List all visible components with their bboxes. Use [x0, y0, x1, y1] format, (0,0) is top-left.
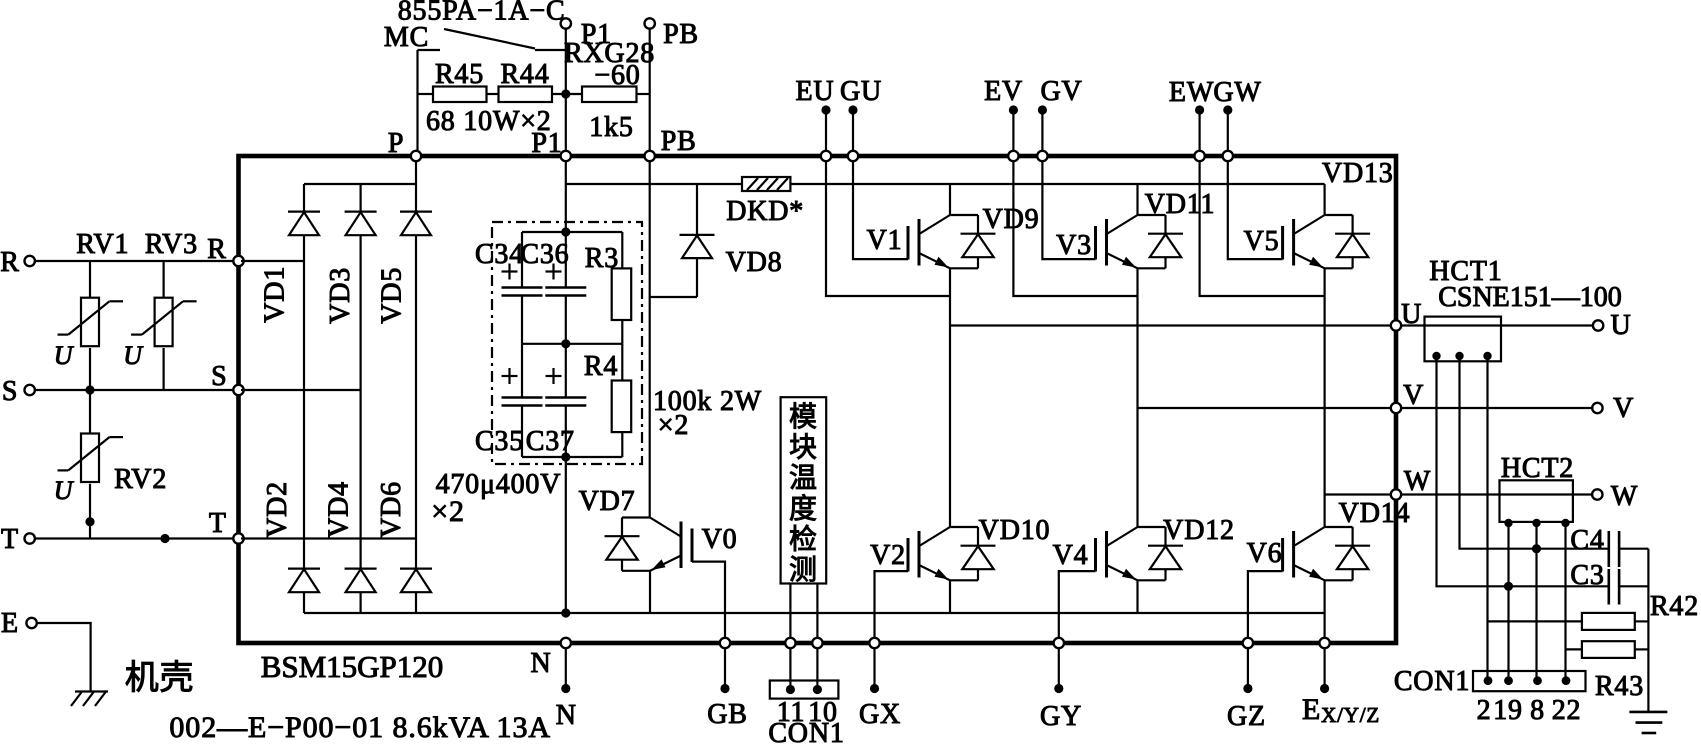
svg-text:R42: R42 [1650, 591, 1699, 622]
svg-text:R: R [0, 247, 19, 278]
wire N column [565, 457, 567, 613]
wire GX gate lead [875, 571, 909, 643]
svg-text:VD12: VD12 [1163, 515, 1235, 546]
svg-text:R4: R4 [584, 351, 618, 382]
resistor R43 [1566, 648, 1582, 650]
wire GY stub [1058, 648, 1060, 689]
terminal EW stub [1198, 110, 1200, 151]
svg-text:R44: R44 [500, 59, 549, 90]
svg-text:VD10: VD10 [979, 515, 1051, 546]
terminal W module [1391, 489, 1401, 499]
svg-text:V5: V5 [1244, 226, 1280, 257]
resistor R45 68 10W [433, 87, 487, 103]
node N rail / N column [561, 608, 570, 617]
svg-text:22: 22 [1552, 695, 1582, 726]
wire phase R input [35, 260, 236, 262]
wire V output [1401, 407, 1593, 409]
terminal EV bus [1008, 151, 1018, 161]
diode VD5 [415, 184, 417, 212]
terminal PB top [645, 18, 655, 28]
wire V5 collector column [1323, 184, 1325, 215]
svg-text:检: 检 [789, 523, 818, 555]
svg-text:VD5: VD5 [377, 267, 408, 324]
svg-text:机壳: 机壳 [125, 659, 195, 697]
wire V6 collector column [1323, 495, 1325, 528]
wire cap bottom rail [522, 456, 622, 458]
diode VD2 [303, 261, 305, 569]
diode VD8 [696, 184, 698, 235]
svg-text:19: 19 [1493, 695, 1523, 726]
svg-text:U: U [1610, 310, 1631, 341]
svg-text:R3: R3 [585, 243, 619, 274]
svg-text:模: 模 [789, 401, 818, 433]
wire N rail [304, 612, 1325, 614]
terminal GU bus [848, 151, 858, 161]
svg-text:C35: C35 [475, 426, 524, 457]
svg-text:GW: GW [1213, 77, 1261, 108]
svg-text:CON1: CON1 [768, 718, 844, 744]
svg-text:S: S [211, 361, 227, 392]
terminal U module [1391, 320, 1401, 330]
svg-text:2: 2 [1477, 695, 1492, 726]
wire resistor rail P-P1 [418, 93, 434, 95]
wire GW gate lead [1228, 158, 1283, 259]
node RV1/S [85, 385, 94, 394]
svg-text:EW: EW [1169, 77, 1214, 108]
wire GY gate lead [1059, 571, 1096, 643]
terminal P1 bus [561, 151, 571, 161]
wire EU emitter sense [826, 158, 950, 296]
svg-text:MC: MC [384, 22, 429, 53]
svg-text:V6: V6 [1247, 538, 1283, 569]
terminal R [25, 256, 35, 266]
ground chassis [75, 690, 108, 692]
svg-text:U: U [54, 341, 75, 370]
wire GZ gate lead [1248, 571, 1283, 643]
svg-text:C3: C3 [1570, 560, 1604, 591]
wire signal ground [1647, 549, 1649, 712]
terminal GZ module [1243, 638, 1253, 648]
svg-text:GZ: GZ [1227, 701, 1266, 732]
wire PB column [649, 158, 651, 518]
svg-text:P: P [388, 128, 404, 159]
resistor R44 68 10W [499, 87, 553, 103]
terminal EU stub [825, 110, 827, 151]
node cap bottom [561, 452, 570, 461]
node RV2 lead [85, 517, 94, 526]
svg-text:1k5: 1k5 [589, 112, 633, 143]
wire P1 internal rail [566, 183, 742, 185]
svg-text:RV1: RV1 [76, 229, 129, 260]
transistor V3 IGBT [1096, 215, 1184, 268]
diode VD3 [360, 184, 362, 212]
terminal GV stub [1041, 110, 1043, 151]
terminal P bus [411, 151, 421, 161]
transistor V4 IGBT [1096, 527, 1184, 580]
capacitor C37 [565, 344, 567, 398]
svg-text:RV3: RV3 [145, 229, 198, 260]
svg-text:HCT2: HCT2 [1501, 453, 1574, 484]
wire cap top rail [522, 231, 622, 233]
terminal CON1-11 module [785, 638, 795, 648]
svg-text:V1: V1 [867, 225, 903, 256]
svg-text:C36: C36 [520, 239, 569, 270]
svg-text:N: N [556, 700, 577, 731]
svg-text:VD1: VD1 [260, 266, 291, 323]
wire V3 collector column [1136, 184, 1138, 215]
node HCT2/C3 [1504, 582, 1513, 591]
svg-text:T: T [209, 508, 227, 539]
wire temp sensor pins [789, 584, 791, 644]
node on T wire [160, 534, 169, 543]
node HCT2/C4 [1532, 544, 1541, 553]
ground signal [1629, 711, 1667, 714]
wire W output [1401, 493, 1593, 495]
capacitor C34 [521, 232, 523, 288]
node cap top [561, 227, 570, 236]
IGBT V0 brake chopper [605, 518, 693, 571]
varistor RV2 [89, 390, 91, 434]
wire EW emitter sense [1200, 158, 1325, 296]
wire phase T input [35, 537, 236, 539]
node junction P1/R44 [561, 89, 570, 98]
switch MC contact [418, 49, 441, 51]
wire rectifier top rail [304, 183, 416, 185]
wire W phase line [1325, 493, 1391, 495]
svg-text:R43: R43 [1595, 671, 1644, 702]
wire V1 collector column [949, 184, 951, 215]
svg-text:GY: GY [1040, 701, 1082, 732]
node cap mid [561, 339, 570, 348]
wire GZ stub [1247, 648, 1249, 689]
svg-text:GX: GX [859, 699, 901, 730]
svg-text:VD14: VD14 [1339, 498, 1411, 529]
terminal EW bus [1194, 151, 1204, 161]
svg-text:温: 温 [789, 463, 818, 494]
svg-text:W: W [1404, 466, 1431, 497]
varistor RV1 [89, 261, 91, 298]
wire V2 collector column [949, 326, 951, 528]
diode VD4 [360, 390, 362, 569]
svg-text:测: 测 [789, 555, 818, 586]
terminal GU stub [852, 110, 854, 151]
terminal E [26, 618, 36, 628]
terminal T [25, 533, 35, 543]
svg-text:W: W [1611, 481, 1638, 512]
svg-text:EV: EV [984, 76, 1023, 107]
wire HCT1 pin1 to C3 [1437, 356, 1609, 586]
wire cap mid rail [522, 343, 622, 345]
module outline BSM15GP120 [239, 156, 1397, 643]
svg-text:V0: V0 [702, 524, 738, 555]
resistor R42 [1488, 620, 1582, 622]
wire HCT2 pin1 to CON1 pin19 [1507, 523, 1509, 680]
svg-text:VD9: VD9 [983, 204, 1040, 235]
terminal S module [233, 385, 243, 395]
terminal N module [561, 638, 571, 648]
terminal S [25, 385, 35, 395]
svg-text:DKD*: DKD* [726, 196, 804, 227]
wire N stub [565, 648, 567, 689]
wire HCT2 pin3 to CON1 pin22 [1564, 523, 1566, 680]
wire E X/Y/Z stub [1323, 648, 1325, 689]
wire MC left branch [416, 50, 418, 156]
diode VD1 [303, 184, 305, 212]
wire P column into rectifier [415, 158, 417, 184]
wire HCT1 pin2 to C4 [1460, 356, 1609, 549]
svg-text:N: N [530, 648, 551, 679]
terminal GX module [869, 638, 879, 648]
svg-text:VD6: VD6 [376, 481, 407, 538]
wire V5 emitter / W phase column [1323, 268, 1325, 494]
svg-text:C4: C4 [1570, 525, 1604, 556]
wire GU gate lead [853, 158, 908, 259]
wire E to chassis [37, 623, 91, 691]
wire V3 emitter / V phase column [1136, 268, 1138, 408]
terminal W output [1592, 489, 1602, 499]
capacitor bank dash-dot enclosure [492, 222, 642, 464]
svg-text:GV: GV [1040, 76, 1082, 107]
resistor R3 100k 2W [621, 232, 623, 268]
svg-text:U: U [1401, 299, 1422, 330]
terminal GY module [1054, 638, 1064, 648]
svg-text:VD2: VD2 [262, 481, 293, 538]
capacitor C35 [521, 344, 523, 398]
svg-text:VD8: VD8 [726, 247, 783, 278]
wire PB column (top terminal to bus) [649, 29, 651, 157]
svg-text:C37: C37 [526, 426, 575, 457]
wire HCT2 pin2 to CON1 pin8 [1535, 523, 1537, 680]
wire V6 emitter to E X/Y/Z [1323, 580, 1325, 643]
transistor V5 IGBT [1283, 215, 1371, 268]
wire T inside [241, 537, 416, 539]
wire S inside [241, 389, 361, 391]
terminal P1 top [561, 18, 571, 28]
current sensor HCT2 [1500, 480, 1573, 522]
svg-text:VD7: VD7 [579, 486, 636, 517]
varistor RV3 [163, 261, 165, 298]
svg-text:V3: V3 [1056, 230, 1092, 261]
capacitor C4 [1608, 531, 1611, 567]
wire V0 emitter [649, 571, 651, 613]
svg-text:CSNE151—100: CSNE151—100 [1438, 282, 1622, 313]
svg-text:VD3: VD3 [325, 267, 356, 324]
svg-text:EU: EU [796, 76, 835, 107]
wire HCT1 pin3 to CON1 pin2 [1486, 356, 1488, 680]
wire U phase line [950, 324, 1391, 326]
wire V4 collector column [1136, 408, 1138, 527]
wire P1 column to cap top [565, 158, 567, 232]
svg-text:V4: V4 [1053, 540, 1089, 571]
wire R inside [241, 260, 304, 262]
terminal V output [1592, 403, 1602, 413]
connector DKD* brake resistor [742, 177, 790, 191]
terminal T module [233, 533, 243, 543]
svg-text:−60: −60 [594, 60, 640, 91]
terminal R module [233, 256, 243, 266]
wire VD8 to PB [650, 296, 697, 298]
wire V2 emitter [949, 580, 951, 613]
svg-text:8: 8 [1530, 695, 1545, 726]
wire V0 gate to GB [692, 562, 725, 643]
resistor R4 100k 2W [621, 344, 623, 381]
svg-text:VD13: VD13 [1322, 158, 1394, 189]
terminal E X/Y/Z module [1319, 638, 1329, 648]
terminal V module [1391, 403, 1401, 413]
wire U output [1401, 324, 1593, 326]
svg-text:V2: V2 [870, 540, 906, 571]
svg-text:PB: PB [663, 19, 699, 50]
wire EV emitter sense [1013, 158, 1137, 296]
svg-text:U: U [54, 476, 75, 505]
svg-text:度: 度 [789, 493, 818, 525]
transistor V1 IGBT [908, 215, 996, 268]
wire V1 emitter / U phase column [949, 268, 951, 325]
svg-text:PB: PB [661, 126, 697, 157]
wire V4 emitter [1136, 580, 1138, 613]
diode VD6 [415, 539, 417, 569]
svg-text:U: U [123, 341, 144, 370]
svg-text:V: V [1613, 393, 1634, 424]
terminal EV stub [1012, 110, 1014, 151]
svg-text:CON1: CON1 [1394, 666, 1470, 697]
svg-text:GU: GU [840, 76, 882, 107]
terminal CON1-10 module [812, 638, 822, 648]
wire P1 column (top terminal to bus) [565, 29, 567, 157]
capacitor C36 [565, 232, 567, 288]
box module temperature detection [781, 397, 827, 583]
svg-text:002—E−P00−01 8.6kVA 13A: 002—E−P00−01 8.6kVA 13A [169, 711, 551, 744]
wire GB stub [724, 648, 726, 689]
svg-text:VD4: VD4 [324, 481, 355, 538]
svg-text:P1: P1 [531, 128, 562, 159]
svg-text:VD11: VD11 [1145, 189, 1216, 220]
terminal PB bus [645, 151, 655, 161]
terminal U output [1593, 320, 1603, 330]
svg-text:R: R [207, 234, 226, 265]
resistor RXG28-60 1k5 [582, 87, 637, 103]
wire GV gate lead [1042, 158, 1095, 259]
svg-text:C34: C34 [475, 239, 524, 270]
wire GX stub [873, 648, 875, 689]
transistor V6 IGBT [1283, 527, 1371, 580]
terminal GW bus [1223, 151, 1233, 161]
svg-text:R45: R45 [435, 59, 484, 90]
svg-text:GB: GB [707, 699, 748, 730]
svg-text:×2: ×2 [431, 495, 465, 528]
svg-text:V: V [1403, 380, 1424, 411]
terminal GB module [720, 638, 730, 648]
svg-text:T: T [1, 524, 19, 555]
connector CON1 pins 2 19 8 22 [1473, 671, 1586, 691]
svg-text:S: S [2, 376, 18, 407]
wire phase S input [35, 389, 236, 391]
terminal GW stub [1227, 110, 1229, 151]
svg-text:块: 块 [789, 433, 818, 464]
wire V phase line [1138, 407, 1392, 409]
svg-text:E: E [1, 608, 19, 639]
capacitor C3 [1608, 569, 1611, 605]
svg-text:RV2: RV2 [114, 464, 167, 495]
svg-text:BSM15GP120: BSM15GP120 [261, 649, 444, 684]
terminal EU bus [821, 151, 831, 161]
current sensor HCT1 CSNE151-100 [1425, 317, 1502, 362]
svg-text:×2: ×2 [658, 410, 689, 441]
transistor V2 IGBT [908, 527, 996, 580]
terminal GV bus [1037, 151, 1047, 161]
connector CON1 pins 11 10 [770, 681, 839, 699]
